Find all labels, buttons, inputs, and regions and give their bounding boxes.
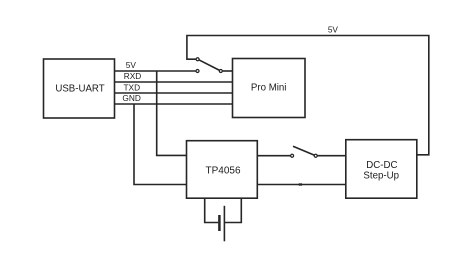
svg-text:5V: 5V: [126, 60, 137, 70]
svg-text:GND: GND: [122, 93, 140, 103]
svg-text:5V: 5V: [328, 25, 339, 35]
svg-text:USB-UART: USB-UART: [55, 83, 104, 94]
svg-text:Step-Up: Step-Up: [363, 170, 399, 181]
svg-text:TP4056: TP4056: [205, 165, 240, 176]
svg-text:Pro Mini: Pro Mini: [251, 82, 287, 93]
svg-text:RXD: RXD: [124, 71, 142, 81]
svg-text:TXD: TXD: [123, 82, 140, 92]
